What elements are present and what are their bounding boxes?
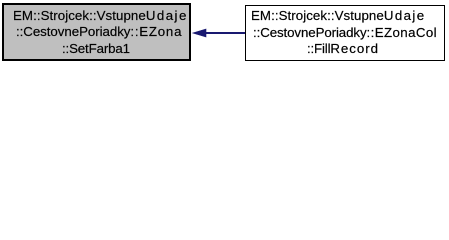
edge: FillRecord -> SetFarba1 (midnightblue arrow) (0, 0, 449, 67)
node: EM::Strojcek::VstupneUdaje::CestovnePoriadky::EZona::SetFarba1 (current node, grey fill) (2, 3, 191, 61)
node: EM::Strojcek::VstupneUdaje::CestovnePoriadky::EZonaCol::FillRecord (245, 5, 445, 61)
